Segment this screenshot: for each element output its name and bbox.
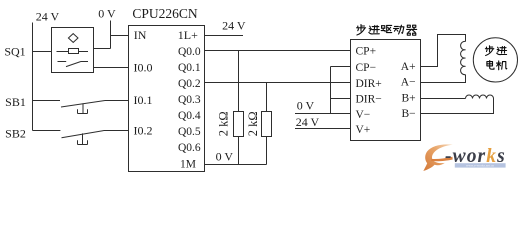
inductor L2 phase B coil bbox=[466, 95, 494, 98]
motor M circle bbox=[473, 38, 517, 82]
PLC U1 CPU226CN box bbox=[129, 26, 205, 172]
svg-text:Q0.6: Q0.6 bbox=[178, 142, 201, 154]
svg-text:A−: A− bbox=[401, 77, 416, 89]
svg-text:Q0.5: Q0.5 bbox=[178, 126, 201, 138]
svg-text:Q0.2: Q0.2 bbox=[178, 78, 201, 90]
wire sensor to 0V bbox=[94, 48, 111, 50]
wire Q0.0 to CP+ bbox=[205, 50, 351, 52]
svg-text:Q0.4: Q0.4 bbox=[178, 110, 201, 122]
resistor R2 2k bbox=[266, 83, 268, 165]
svg-text:2 kΩ: 2 kΩ bbox=[246, 111, 260, 136]
svg-text:V−: V− bbox=[356, 109, 371, 121]
svg-text:www.e-works.net.cn: www.e-works.net.cn bbox=[466, 164, 494, 168]
wire 0V vertical bbox=[110, 21, 112, 49]
wire CP-/DIR-/V- tie vertical bbox=[330, 67, 332, 114]
svg-text:24 V: 24 V bbox=[36, 9, 60, 23]
wire DIR- stub bbox=[331, 98, 351, 100]
svg-text:SB2: SB2 bbox=[5, 127, 26, 141]
wire 24V to V+ bbox=[295, 128, 351, 130]
svg-text:0 V: 0 V bbox=[297, 99, 315, 113]
svg-text:1L+: 1L+ bbox=[178, 28, 198, 42]
pushbutton SB1 bbox=[33, 101, 129, 108]
svg-text:DIR+: DIR+ bbox=[356, 78, 382, 90]
wire B+ stub bbox=[421, 98, 466, 100]
motor label 步进电机 bbox=[485, 46, 506, 56]
svg-text:0 V: 0 V bbox=[98, 6, 116, 20]
wire A+ route bbox=[421, 35, 466, 67]
svg-text:B−: B− bbox=[401, 108, 415, 120]
switch contact inside SQ1 bbox=[58, 62, 89, 67]
wire SQ1 output to I0.0 bbox=[94, 67, 129, 69]
svg-text:I0.2: I0.2 bbox=[134, 124, 153, 138]
svg-text:V+: V+ bbox=[356, 124, 371, 136]
driver title 步进驱动器 bbox=[357, 25, 417, 36]
wire B- route bbox=[421, 99, 494, 114]
svg-text:CPU226CN: CPU226CN bbox=[132, 6, 198, 21]
diamond symbol of SQ1 bbox=[68, 34, 78, 43]
wire 24V vertical rail bbox=[32, 23, 34, 131]
svg-text:24 V: 24 V bbox=[296, 115, 320, 129]
wire CP- stub bbox=[331, 66, 351, 68]
wire 1L+ to 24V bbox=[205, 35, 244, 37]
wire 1M 0V rail bbox=[205, 164, 267, 166]
proximity switch SQ1 box bbox=[52, 28, 94, 73]
resistor element inside SQ1 bbox=[57, 51, 89, 53]
svg-text:24 V: 24 V bbox=[222, 18, 246, 32]
svg-text:I0.1: I0.1 bbox=[134, 93, 153, 107]
pushbutton SB2 bbox=[33, 131, 129, 138]
logo e crossbar bbox=[431, 157, 453, 162]
svg-text:Q0.1: Q0.1 bbox=[178, 62, 201, 74]
svg-text:CP+: CP+ bbox=[356, 46, 377, 58]
svg-text:IN: IN bbox=[134, 28, 147, 42]
svg-text:CP−: CP− bbox=[356, 62, 377, 74]
svg-text:1M: 1M bbox=[180, 159, 196, 171]
stepper driver U2 box bbox=[351, 40, 421, 141]
svg-text:I0.0: I0.0 bbox=[134, 61, 153, 75]
wire A- route bbox=[421, 75, 466, 83]
wire 0V to V- bbox=[295, 113, 351, 115]
svg-text:DIR−: DIR− bbox=[356, 94, 382, 106]
svg-text:SQ1: SQ1 bbox=[4, 45, 25, 59]
svg-text:Q0.3: Q0.3 bbox=[178, 94, 201, 106]
wire 0V to IN pin bbox=[111, 35, 129, 37]
logo url bar bbox=[455, 163, 506, 167]
resistor R1 2k bbox=[238, 51, 240, 165]
svg-text:2 kΩ: 2 kΩ bbox=[217, 111, 231, 136]
wire Q0.2 to DIR+ bbox=[205, 82, 351, 84]
svg-text:Q0.0: Q0.0 bbox=[178, 46, 201, 58]
wire 24V to sensor SQ1 bbox=[33, 51, 52, 53]
svg-text:0 V: 0 V bbox=[216, 149, 234, 163]
svg-text:SB1: SB1 bbox=[5, 95, 26, 109]
svg-text:A+: A+ bbox=[401, 61, 416, 73]
inductor L1 phase A coil bbox=[461, 41, 466, 74]
logo e swoosh bbox=[423, 144, 453, 171]
svg-text:B+: B+ bbox=[401, 93, 415, 105]
